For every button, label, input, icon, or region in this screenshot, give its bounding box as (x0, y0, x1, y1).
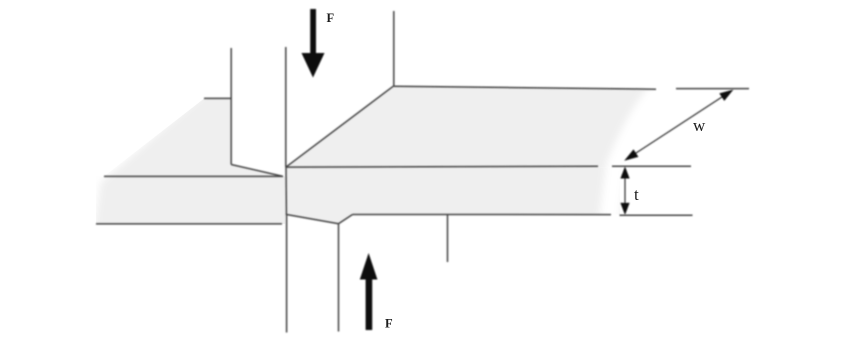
left sheet top front edge (104, 175, 283, 177)
svg-text:w: w (693, 116, 706, 135)
lower blade front-left edge (286, 215, 288, 332)
lower blade top depth edge (339, 215, 353, 224)
left sheet bottom front edge (96, 223, 282, 225)
upper blade left edge (230, 48, 232, 165)
right sheet top back edge (394, 86, 656, 89)
force F down arrow (302, 9, 325, 78)
sheet left piece top face (104, 99, 283, 177)
sheet left piece front face (96, 176, 285, 224)
sheet right piece front face (286, 167, 620, 224)
sheet right piece top face (286, 86, 661, 167)
t bottom extension line (620, 214, 693, 216)
upper blade bottom cutting edge (231, 165, 283, 177)
sheared face edge of right piece (285, 167, 287, 215)
right sheet top front edge (286, 165, 598, 168)
right sheet bottom front edge (353, 214, 612, 216)
svg-text:F: F (385, 317, 393, 331)
t top extension line (612, 165, 691, 167)
dimension t arrow (620, 166, 629, 215)
svg-text:t: t (634, 185, 639, 204)
lower blade front-right edge (338, 224, 340, 332)
w extension line (676, 88, 749, 90)
force F up arrow (360, 253, 378, 330)
left sheet top back edge (204, 97, 231, 99)
svg-text:F: F (327, 11, 335, 25)
upper blade right edge (285, 47, 287, 167)
left break fade (87, 87, 201, 230)
dimension w arrow (624, 90, 733, 161)
lower blade back edge (447, 215, 449, 262)
right break fade (609, 78, 671, 221)
lower blade top cutting edge (286, 214, 339, 223)
right sheet top-left depth edge (286, 86, 394, 167)
upper blade back edge (393, 11, 395, 86)
